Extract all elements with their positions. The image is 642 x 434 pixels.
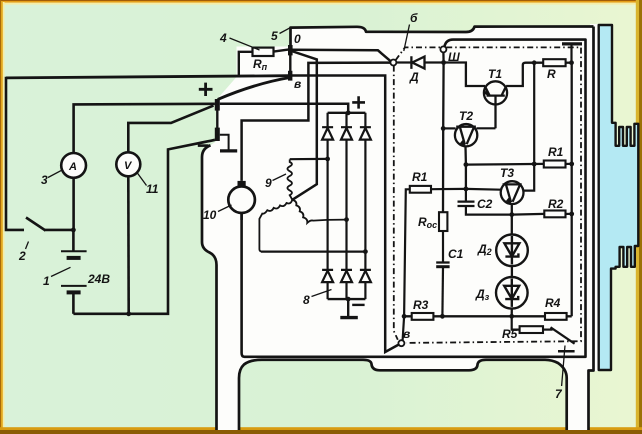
wire to T3 base bbox=[466, 188, 501, 191]
svg-text:11: 11 bbox=[146, 182, 159, 196]
wire: neutral from 0 to stator star bbox=[292, 51, 317, 200]
wire T3 collector up to supply bbox=[523, 63, 534, 191]
brush link wire bbox=[216, 110, 218, 128]
stator winding 9: phase coil 2 (to lower left) bbox=[259, 200, 292, 252]
case screw contact 7 bbox=[551, 327, 575, 386]
wire: switch to battery bbox=[44, 229, 73, 232]
junction battery top node bbox=[71, 228, 76, 233]
junction rail Roc bbox=[440, 314, 445, 319]
svg-text:С1: С1 bbox=[448, 247, 464, 261]
wire: node B to regulator B terminal bbox=[292, 76, 399, 353]
rectifier minus rail bbox=[328, 298, 366, 300]
resistor R3 bbox=[412, 313, 434, 320]
svg-text:Ш: Ш bbox=[448, 50, 460, 64]
node 0 (terminal bar) bbox=[288, 45, 293, 55]
bottom rail of regulator bbox=[404, 315, 572, 317]
transistor T1 bbox=[484, 81, 507, 128]
svg-text:в: в bbox=[294, 77, 301, 91]
left leg left edge / body left edge bbox=[202, 145, 217, 430]
resistor R5 bbox=[512, 316, 553, 333]
wire coil1 to rectifier column 1 bbox=[290, 158, 328, 161]
bottom diode column 2 bbox=[341, 220, 352, 300]
svg-text:9: 9 bbox=[265, 176, 272, 190]
right supply rail bbox=[571, 63, 573, 317]
diode D (6) bbox=[396, 56, 443, 69]
wire: B curve down to plus brush bbox=[218, 78, 290, 100]
svg-text:б: б bbox=[410, 11, 418, 25]
voltmeter V (11) bbox=[116, 152, 140, 176]
svg-text:8: 8 bbox=[303, 293, 310, 307]
T1 emitter arrow bbox=[484, 89, 490, 96]
svg-text:A: A bbox=[68, 161, 77, 173]
brush plus (filled bar) bbox=[215, 99, 220, 111]
svg-text:R1: R1 bbox=[548, 145, 564, 159]
case tie bar above R bbox=[562, 44, 582, 63]
capacitor C2 bbox=[458, 189, 512, 215]
T3 emitter arrow bbox=[506, 197, 512, 204]
motor 10 bbox=[228, 186, 255, 213]
left leg right edge with fillet bbox=[239, 360, 262, 430]
wire: armature supply (motor to diode node) bbox=[242, 63, 391, 181]
minus sign bbox=[198, 144, 209, 147]
junction coil1/column1 bbox=[325, 157, 330, 162]
zener D2 bbox=[496, 235, 528, 267]
resistor R1 (left) bbox=[404, 186, 466, 316]
wire: voltmeter top to plus node bbox=[128, 106, 213, 153]
rectifier bridge 8: plus rail bbox=[328, 112, 366, 114]
ammeter A (3) bbox=[61, 153, 86, 178]
junction T3 collector riser bbox=[532, 162, 537, 167]
wire T2 base bbox=[443, 127, 455, 129]
junction T3 emitter / R2 line bbox=[509, 212, 514, 217]
ground at minus brush bbox=[220, 135, 237, 151]
wire T2 collector to T1 base bbox=[476, 127, 495, 129]
wire: node 0 to diode circle node bbox=[292, 50, 391, 62]
white pocket around Rn resistor (fill) bbox=[217, 47, 291, 100]
wire v terminal to bottom rail bbox=[403, 316, 405, 340]
svg-text:1: 1 bbox=[43, 274, 50, 288]
wire: left vertical down to switch bbox=[6, 77, 24, 230]
switch 2 blade bbox=[26, 218, 46, 231]
wire: battery bottom rail to minus riser bbox=[73, 140, 215, 314]
regulator inner box (top/right/bottom, joined to motor lower wire) bbox=[242, 40, 586, 357]
svg-text:R2: R2 bbox=[548, 197, 564, 211]
wire: plus node to rectifier plus bbox=[220, 104, 348, 113]
junction coil2/column3 bbox=[363, 249, 368, 254]
wire T2 emitter down bbox=[464, 146, 467, 189]
label 11 bbox=[137, 173, 159, 197]
svg-text:24В: 24В bbox=[87, 272, 110, 286]
battery 1 (24V) bbox=[61, 230, 87, 314]
svg-text:5: 5 bbox=[271, 29, 278, 43]
bottom diode column 1 bbox=[322, 159, 333, 299]
junction rail left bbox=[402, 314, 407, 319]
resistor R4 bbox=[545, 313, 567, 320]
terminal node circle (generator output) bbox=[390, 60, 396, 66]
svg-text:Т1: Т1 bbox=[488, 67, 502, 81]
node B (terminal bar) bbox=[288, 71, 292, 81]
wire: motor bottom to case bbox=[240, 213, 243, 220]
plus sign left bbox=[199, 83, 213, 96]
svg-text:R4: R4 bbox=[545, 296, 561, 310]
label 4 bbox=[219, 31, 260, 50]
junction T3 riser / supply bbox=[532, 60, 537, 65]
junction R1/rail bbox=[569, 162, 574, 167]
wire T3 emitter chain to zeners bbox=[511, 204, 513, 234]
label 8 bbox=[303, 290, 332, 308]
terminal Sh circle bbox=[440, 46, 446, 52]
wire coil2 to rectifier column 3 bbox=[261, 251, 365, 253]
svg-text:R1: R1 bbox=[412, 170, 428, 184]
body bottom edge with recess bbox=[262, 360, 545, 371]
junction T2 emitter / R1 line bbox=[464, 162, 469, 167]
svg-text:R: R bbox=[547, 67, 556, 81]
svg-text:Д: Д bbox=[409, 70, 419, 84]
regulator enclosure dash-dot boundary bbox=[394, 47, 581, 343]
stator winding 9: phase coil 1 (vertical) bbox=[287, 159, 292, 199]
wire diode to T1 emitter riser bbox=[444, 63, 485, 87]
resistor Roc (vertical) bbox=[439, 212, 447, 231]
junction voltmeter bottom bbox=[126, 311, 131, 316]
junction R2/rail bbox=[569, 212, 574, 217]
body right edge bbox=[589, 27, 594, 431]
resistor R1 (right) bbox=[544, 161, 566, 168]
ground below rectifier bbox=[340, 299, 358, 318]
svg-text:10: 10 bbox=[203, 208, 217, 222]
svg-text:3: 3 bbox=[41, 173, 48, 187]
label 5 bbox=[271, 28, 290, 43]
svg-text:Т2: Т2 bbox=[459, 109, 473, 123]
plus sign at rectifier bbox=[352, 96, 365, 108]
right leg left edge bbox=[545, 360, 567, 430]
wire: voltmeter bottom bbox=[127, 176, 130, 314]
svg-text:4: 4 bbox=[219, 31, 227, 45]
junction rail D3 bbox=[509, 314, 514, 319]
wire: long line from left edge to node B bbox=[6, 76, 288, 78]
junction at diode/Sh vertical bbox=[441, 60, 446, 65]
label 3 bbox=[41, 170, 63, 187]
label 9 bbox=[265, 174, 286, 190]
terminal v circle (regulator B) bbox=[398, 340, 404, 346]
body top edge bbox=[291, 27, 594, 47]
top diode column 2 bbox=[341, 113, 352, 220]
device outline strokes bbox=[202, 27, 594, 431]
transistor T2 bbox=[455, 124, 477, 146]
T2 emitter arrow bbox=[460, 139, 466, 146]
resistor R bbox=[543, 59, 571, 66]
svg-text:R5: R5 bbox=[502, 327, 518, 341]
junction R1/T2/C2/T3 base bbox=[464, 187, 469, 192]
wire 0 to B bbox=[289, 55, 291, 71]
junction R right bbox=[569, 60, 574, 65]
top diode column 1 bbox=[322, 113, 333, 159]
junction plus rail bbox=[346, 110, 351, 115]
wire line to R1 right bbox=[466, 163, 544, 166]
label 6 bbox=[404, 11, 418, 51]
wire D2 to D3 bbox=[511, 266, 513, 277]
stator winding 9: phase coil 3 (to right) bbox=[292, 200, 346, 223]
wire Sh down through regulator bbox=[442, 52, 445, 212]
svg-text:2: 2 bbox=[18, 249, 26, 263]
wire: ammeter bottom to battery node bbox=[72, 178, 75, 230]
transistor T3 bbox=[501, 181, 524, 204]
capacitor C1 bbox=[436, 263, 449, 317]
minus sign at rectifier bbox=[352, 304, 364, 306]
label 1 bbox=[43, 267, 71, 288]
label 2 bbox=[18, 242, 29, 264]
wire D3 to bottom rail bbox=[511, 309, 513, 317]
wire: ammeter branch (vertical + top line to plus node) bbox=[74, 104, 215, 153]
svg-text:R3: R3 bbox=[413, 298, 429, 312]
svg-text:С2: С2 bbox=[477, 197, 493, 211]
motor 10 brush block bbox=[238, 181, 246, 187]
wire T1 collector to R bbox=[506, 63, 543, 86]
wire Roc to C1 bbox=[442, 231, 444, 262]
svg-text:в: в bbox=[403, 327, 410, 341]
svg-text:0: 0 bbox=[294, 32, 301, 46]
junction coil3/column2 bbox=[344, 217, 349, 222]
heatsink (cyan) bbox=[599, 25, 639, 370]
junction T2 base bbox=[441, 126, 446, 131]
white sliver between body edge and heatsink bbox=[590, 24, 600, 371]
wire to R2 bbox=[512, 213, 545, 216]
brush minus (filled bar) bbox=[215, 128, 220, 141]
svg-text:Т3: Т3 bbox=[500, 166, 514, 180]
resistor R2 bbox=[544, 211, 571, 218]
resistor Rn (4) bbox=[239, 48, 288, 76]
label 10 bbox=[203, 205, 232, 222]
junction minus rail bbox=[346, 297, 351, 302]
zener D3 bbox=[496, 277, 528, 309]
white body of generator unit (fill) bbox=[202, 27, 594, 431]
bottom diode column 3 bbox=[360, 252, 371, 300]
top diode column 3 bbox=[360, 113, 371, 252]
